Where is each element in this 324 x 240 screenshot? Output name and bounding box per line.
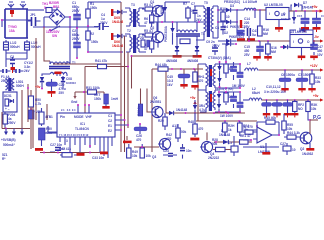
cap C6 680u 250V — [72, 27, 81, 59]
svg-text:+5v: +5v — [313, 94, 319, 98]
svg-text:SW: SW — [52, 34, 57, 38]
diode D21 1N5408 vertical — [160, 2, 167, 22]
svg-text:25V: 25V — [244, 53, 251, 57]
svg-text:R44 3.3k: R44 3.3k — [287, 131, 300, 135]
cap C16 — [312, 10, 324, 27]
label SZ1 corner — [2, 153, 8, 161]
diode D7 1N4148 loop — [291, 1, 313, 11]
cap C12 — [283, 100, 293, 113]
Y-cap CY2 — [13, 61, 33, 73]
svg-text:250V: 250V — [100, 21, 108, 25]
svg-text:Gnd: Gnd — [71, 100, 77, 104]
svg-text:+5v: +5v — [190, 96, 196, 100]
inductor L2 68uH — [243, 87, 263, 100]
wire to +5VSB reg — [237, 10, 243, 33]
transistor Q7 — [300, 132, 312, 151]
cap C9 — [206, 40, 220, 55]
svg-text:1N4148: 1N4148 — [176, 108, 187, 112]
diode D6 loop — [290, 28, 313, 35]
cap C25 — [178, 69, 190, 84]
svg-text:5u: 5u — [252, 33, 256, 37]
svg-text:Q2: Q2 — [300, 147, 304, 151]
resistor R17 150k — [94, 92, 108, 106]
wire AC line1 — [28, 9, 44, 11]
svg-text:T2: T2 — [127, 29, 131, 33]
IC1 TL494 box — [57, 113, 115, 137]
svg-text:4.7k: 4.7k — [35, 102, 41, 106]
label 1W 100V — [220, 114, 234, 118]
svg-text:4.7k: 4.7k — [46, 131, 52, 135]
right pin stubs — [115, 114, 129, 131]
diode D8 — [40, 74, 50, 89]
resistor R34 — [293, 100, 305, 113]
svg-text:10V: 10V — [317, 53, 324, 57]
ground C7 — [298, 88, 305, 92]
wire left edge bottom — [243, 139, 279, 147]
svg-text:250V: 250V — [72, 37, 80, 41]
Gnd arrow — [71, 92, 77, 104]
diode D1A on wire y142 — [214, 129, 252, 144]
diode D22 P6KE vertical — [164, 22, 175, 45]
maroon drop x152 — [151, 69, 153, 152]
output arrow a — [4, 129, 8, 136]
label 1mH — [111, 97, 119, 101]
wire +5V — [262, 99, 320, 101]
ground C15b — [253, 56, 261, 61]
transistor Q6 — [158, 133, 172, 150]
switch SW1 115/230V — [46, 26, 60, 38]
svg-text:Pin: Pin — [60, 115, 65, 119]
svg-text:10n: 10n — [186, 149, 192, 153]
resistor R5 4.7 — [142, 29, 157, 37]
svg-text:BR1: BR1 — [53, 5, 60, 9]
transformer T5 — [194, 1, 218, 40]
cap C23 — [163, 149, 177, 156]
wire Q1-Q2 link — [157, 17, 159, 48]
bus vertical d — [131, 56, 133, 89]
ground C14 — [237, 38, 245, 41]
label +VR1 — [33, 110, 42, 114]
inductor L4 100uH — [243, 0, 266, 11]
resistor R30 1k — [223, 121, 236, 136]
ground R33 — [308, 88, 315, 92]
svg-text:T5: T5 — [204, 1, 208, 5]
cap C10 — [262, 100, 272, 113]
bottom pin stubs — [60, 137, 112, 158]
svg-text:470: 470 — [198, 127, 204, 131]
regulator U2 LM7805 — [264, 3, 296, 20]
Q4 collector stub — [206, 132, 208, 140]
wire AC bottom line — [33, 26, 98, 28]
ground center tap — [55, 72, 62, 75]
svg-text:+ –: + – — [5, 107, 10, 111]
transformer T6 — [198, 64, 220, 90]
svg-text:1kV: 1kV — [167, 83, 174, 87]
svg-text:50k: 50k — [181, 130, 187, 134]
label 4148 5408 — [166, 59, 198, 63]
label C25 10n 1kV — [167, 75, 174, 87]
svg-text:TL494CN: TL494CN — [75, 127, 90, 131]
red ground bar mid — [123, 136, 132, 143]
bus vertical c — [127, 52, 129, 128]
coupling transformer T4 — [176, 22, 205, 46]
svg-text:Q3: Q3 — [152, 155, 156, 159]
center red mark T7 — [210, 94, 212, 102]
resistor R20 470 — [158, 113, 167, 130]
svg-text:R41 47k: R41 47k — [95, 59, 107, 63]
wire F204 to bus — [4, 127, 6, 129]
resistor R27 10k — [238, 121, 251, 136]
resistor R44 43k — [155, 63, 168, 71]
svg-text:47: 47 — [144, 47, 148, 51]
svg-text:C8: C8 — [215, 26, 219, 30]
feedback resistor R45 — [262, 116, 279, 124]
svg-text:10k: 10k — [311, 107, 317, 111]
svg-text:2D: 2D — [140, 36, 145, 40]
resistor R31 310k — [86, 86, 100, 94]
ground below box — [77, 153, 85, 156]
svg-text:1W 100V: 1W 100V — [220, 114, 234, 118]
cap C8 — [215, 24, 226, 35]
svg-text:500H: 500H — [16, 84, 24, 88]
transformer T2 — [125, 29, 146, 53]
transistor Q4 — [200, 141, 219, 160]
svg-text:10k: 10k — [146, 154, 152, 158]
resistor R35 — [306, 100, 318, 120]
svg-text:500uH: 500uH — [10, 45, 20, 49]
wire AC line2 — [1, 19, 31, 27]
svg-text:D3: D3 — [230, 4, 234, 8]
svg-text:2kV: 2kV — [24, 69, 31, 73]
svg-text:E1: E1 — [108, 124, 112, 128]
svg-text:470: 470 — [166, 137, 172, 141]
wire top feed — [88, 1, 121, 3]
cap C4 1u 250V — [94, 13, 109, 30]
svg-text:R20: R20 — [158, 119, 164, 123]
svg-text:470: 470 — [136, 138, 142, 142]
svg-text:7 1 16 15 2 13 4 5 6 R 12: 7 1 16 15 2 13 4 5 6 R 12 — [59, 133, 89, 137]
svg-text:150k: 150k — [91, 40, 98, 44]
svg-text:3 in 2200u 16V: 3 in 2200u 16V — [264, 90, 287, 94]
output arrow c — [20, 129, 24, 136]
+12V arrow — [310, 64, 323, 72]
svg-text:41 470: 41 470 — [243, 125, 253, 129]
ground R16 — [247, 38, 255, 41]
resistor R7 47 — [144, 38, 154, 53]
svg-text:D4: D4 — [224, 25, 228, 29]
wire +12V — [259, 69, 320, 71]
diode D22b vertical — [195, 46, 199, 55]
left rail down — [197, 64, 199, 121]
label Q3 — [152, 155, 156, 159]
feedback wire y92 — [75, 91, 104, 93]
diode D14 — [193, 103, 206, 121]
transformer T7 — [198, 90, 220, 112]
svg-text:1N4148: 1N4148 — [112, 20, 123, 24]
bus horizontal y56 — [131, 55, 199, 57]
svg-text:U2 LM78L05: U2 LM78L05 — [264, 3, 283, 7]
resistor R26 1k — [137, 89, 143, 117]
svg-text:1k: 1k — [228, 128, 232, 132]
svg-text:C7: C7 — [191, 2, 195, 6]
bus vertical a — [120, 2, 122, 152]
svg-text:+5v: +5v — [312, 5, 318, 9]
wire filter mesh — [6, 53, 27, 67]
resistor R2 150k — [86, 25, 99, 52]
wire y121 — [196, 120, 257, 122]
snubber cap red a — [111, 9, 113, 16]
label +5VSB — [1, 138, 16, 147]
svg-text:4N5408: 4N5408 — [187, 59, 198, 63]
svg-text:E2: E2 — [108, 129, 112, 133]
diode D3 FR302 — [218, 0, 240, 12]
svg-text:5: 5 — [44, 6, 46, 10]
+5V arrow — [313, 94, 323, 102]
svg-text:NM: NM — [271, 50, 276, 54]
Y-cap CY1 — [0, 69, 11, 73]
opto U4b lower — [29, 107, 35, 149]
svg-text:C2: C2 — [108, 119, 112, 123]
diode D19 vertical — [217, 102, 221, 113]
diode D5 vertical — [281, 11, 296, 24]
svg-text:4N5408: 4N5408 — [166, 59, 177, 63]
resistor R1 150k — [86, 2, 98, 31]
svg-text:T3: T3 — [131, 3, 135, 7]
cap C20 470u — [41, 79, 66, 95]
svg-text:1M 100V: 1M 100V — [232, 84, 246, 88]
bottom pin numbers — [59, 133, 89, 137]
svg-text:R7: R7 — [183, 2, 187, 6]
svg-text:D7: D7 — [303, 1, 307, 5]
ground mid red B — [100, 152, 108, 155]
ground C20 — [48, 86, 56, 97]
cap C27 10n — [50, 143, 65, 152]
cap C29 — [280, 142, 296, 155]
wires T6 out — [220, 44, 241, 89]
diode D17 — [302, 152, 313, 156]
svg-text:250V: 250V — [8, 121, 16, 125]
+5VSB arrow — [312, 5, 323, 13]
label CT7 — [215, 87, 233, 91]
secondary vertical rail — [217, 6, 219, 38]
svg-text:3: 3 — [66, 139, 68, 143]
ground C15 — [301, 27, 309, 32]
+5v label aux — [35, 85, 47, 120]
resistor RE1 47 — [240, 134, 251, 144]
AC plug prong N — [20, 2, 26, 9]
svg-text:1N4148: 1N4148 — [281, 17, 291, 21]
rectifier D11 — [222, 42, 237, 46]
svg-text:4TB1: 4TB1 — [45, 115, 53, 119]
PG collector wire — [309, 119, 318, 134]
svg-text:C27: C27 — [280, 142, 286, 146]
label C15 — [244, 45, 251, 57]
svg-text:1mH: 1mH — [111, 97, 119, 101]
svg-text:C33 10n: C33 10n — [92, 156, 104, 160]
+5v tap — [190, 96, 197, 104]
diode D2 1N4148 — [112, 34, 127, 48]
AC plug prong L — [8, 2, 14, 9]
resistor R28 50k — [212, 138, 233, 152]
svg-text:C1: C1 — [108, 114, 112, 118]
resistor R33 — [310, 70, 321, 88]
resistor R53 10k — [140, 144, 151, 158]
resistor R55 10k — [282, 114, 293, 134]
resistor R16b NM — [266, 41, 277, 56]
diode D13 vertical — [217, 74, 221, 88]
diode D15 on wire — [169, 108, 187, 115]
wires T7 out — [220, 91, 241, 113]
resistor R47 — [59, 147, 77, 157]
transformer T1 — [49, 61, 76, 76]
resistor R14 — [224, 92, 233, 105]
inductor L7 — [244, 62, 259, 70]
ground C47 — [310, 56, 318, 61]
ground C10 — [263, 113, 270, 117]
wire y114 bottom-right feed — [166, 112, 245, 114]
wire standby out — [2, 90, 30, 130]
svg-text:A13: A13 — [172, 124, 178, 128]
left pin stub — [48, 126, 68, 143]
svg-text:IC1: IC1 — [80, 122, 85, 126]
svg-text:10k: 10k — [315, 80, 321, 84]
label fuse F1 — [1, 75, 10, 83]
diode D12 vertical — [217, 61, 221, 75]
DC+ rail vertical — [69, 16, 71, 64]
resistor R46 4k7 — [39, 108, 53, 126]
ground C6 — [281, 88, 288, 92]
bridge rectifier BR1 — [44, 1, 70, 27]
op-amp U1 LM339 — [253, 127, 280, 154]
right pin labels — [108, 114, 112, 133]
svg-text:P6KE300A: P6KE300A — [164, 25, 168, 42]
ground C11 — [273, 113, 280, 117]
earth mark — [10, 10, 14, 17]
diode D9 — [61, 76, 76, 89]
ground D21b — [173, 55, 182, 58]
bus horizontal y64 — [53, 63, 121, 65]
ground op-amp — [262, 143, 270, 155]
bus vertical b — [124, 36, 126, 152]
resistor R7b 10 — [183, 2, 195, 22]
svg-text:R47 41k: R47 41k — [59, 147, 71, 151]
resistor R50 4.7k — [29, 90, 42, 107]
svg-text:I: I — [293, 40, 294, 44]
svg-text:R48: R48 — [188, 120, 194, 124]
maroon feedback left — [27, 84, 29, 122]
wire to U3 input — [237, 40, 290, 42]
diode D10 — [280, 45, 291, 49]
choke L1/2 b — [25, 40, 42, 53]
resistor R13 50k — [172, 124, 187, 142]
label 250VAC — [8, 25, 17, 33]
maroon drop x166 to sense wire — [165, 69, 167, 113]
ground C25 — [180, 84, 187, 89]
svg-text:150k: 150k — [90, 6, 97, 10]
svg-text:250V: 250V — [72, 9, 80, 13]
svg-text:8C51: 8C51 — [4, 94, 12, 98]
cap C6 1500u — [279, 70, 295, 88]
svg-text:+5v: +5v — [35, 85, 41, 89]
feedback wire — [256, 122, 280, 136]
ground R16b — [264, 56, 272, 61]
bottom rail wire — [40, 152, 104, 154]
svg-text:2N5551: 2N5551 — [150, 100, 161, 104]
cap C5 680u 250V — [72, 1, 81, 28]
ground R34 — [291, 113, 298, 117]
svg-text:L7: L7 — [247, 62, 251, 66]
small caps bottom row — [180, 144, 192, 159]
cap C7 1500u — [296, 70, 312, 88]
wire primary rail y22 — [150, 2, 205, 31]
svg-text:1N5408: 1N5408 — [160, 5, 164, 16]
svg-text:150k: 150k — [94, 97, 101, 101]
wire AC to C4 — [87, 27, 123, 53]
transistor Q1 — [150, 0, 164, 17]
svg-text:C23: C23 — [163, 149, 169, 153]
svg-text:1N4003: 1N4003 — [66, 81, 76, 85]
svg-text:10: 10 — [292, 148, 296, 152]
resistor R44b 3.3k — [284, 131, 300, 139]
wire 5VSB out — [289, 10, 312, 12]
opto U4 — [39, 127, 58, 146]
ground Q7 — [306, 143, 314, 151]
svg-text:R26 1k: R26 1k — [137, 105, 141, 116]
regulator U3 LM7905 — [290, 30, 313, 48]
svg-text:D2: D2 — [224, 31, 228, 35]
svg-text:25V: 25V — [59, 91, 66, 95]
output arrow b — [12, 129, 16, 136]
ground U2 — [275, 20, 283, 33]
base wire to Q3 — [134, 146, 159, 148]
svg-text:CT304(V) (30A): CT304(V) (30A) — [208, 56, 231, 60]
base drive small parts — [140, 36, 150, 47]
svg-text:I: I — [269, 12, 270, 16]
svg-text:NM: NM — [263, 32, 268, 36]
earth point — [11, 67, 16, 73]
ground C12 — [284, 113, 291, 117]
cap C7 1n — [191, 2, 203, 22]
svg-text:1N4148: 1N4148 — [112, 44, 123, 48]
svg-text:47: 47 — [144, 21, 148, 25]
thermistor TH1 — [42, 2, 57, 13]
svg-text:L4 100uH: L4 100uH — [243, 0, 258, 4]
resistor R4 47 — [144, 12, 154, 27]
resistor R10 10 — [220, 7, 230, 24]
X-capacitor JP1 — [28, 13, 41, 26]
fuse F204 — [3, 112, 16, 127]
cap C14 220/25V — [237, 10, 255, 35]
controller U5 box — [3, 92, 17, 112]
svg-text:+5VSB(B): +5VSB(B) — [1, 138, 16, 142]
svg-text:2kV: 2kV — [196, 18, 203, 22]
svg-text:R45 40k: R45 40k — [264, 116, 276, 120]
resistor R48 470 — [188, 113, 204, 137]
svg-text:C15: C15 — [297, 14, 303, 18]
primary loop wire — [36, 27, 67, 120]
svg-text:C3: C3 — [228, 141, 232, 145]
bus horizontal y66 with resistor R41 47k — [85, 59, 129, 113]
transistor Q6 — [147, 89, 163, 118]
cap C26 blue — [134, 123, 147, 142]
svg-text:4.7u: 4.7u — [199, 108, 205, 112]
svg-text:JP1: JP1 — [30, 13, 36, 17]
svg-text:CT304(V) (5A): CT304(V) (5A) — [215, 87, 233, 91]
diode D2 -5V rectifier — [218, 31, 244, 43]
svg-text:-5v: -5v — [314, 35, 319, 39]
cap C30 — [228, 136, 238, 156]
ground D22b — [193, 55, 202, 58]
